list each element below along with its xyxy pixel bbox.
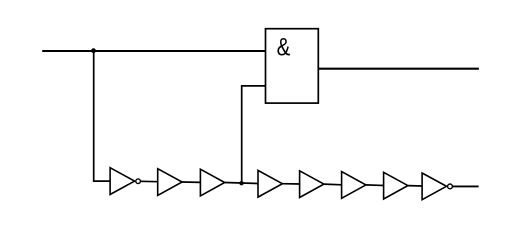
wire: horizontal segment into AND gate input b <box>241 85 266 87</box>
wire: buffer 3 output across tap junction to buffer 4 input <box>225 183 258 184</box>
wire: AND gate output net <box>318 68 479 70</box>
wire: buffer 4 output to buffer 5 input <box>282 183 299 185</box>
inverter 8 (triangle) <box>422 173 446 200</box>
wire: buffer 5 output to buffer 6 input <box>324 183 342 186</box>
wire: top input net from left edge to AND gate input a <box>42 50 265 52</box>
inverter 8 output bubble <box>448 184 453 189</box>
wire: buffer 2 output to buffer 3 input <box>182 181 200 183</box>
wire: inverter 8 output stub to the right <box>453 185 479 187</box>
node: junction on top input net <box>91 48 96 53</box>
wire: riser from tap junction up to AND gate input b level <box>241 86 243 183</box>
buffer 7 (triangle) <box>384 172 408 199</box>
inverter 1 (triangle) <box>110 168 135 195</box>
inverter 1 output bubble <box>136 179 141 184</box>
buffer 5 (triangle) <box>300 171 324 198</box>
buffer 2 (triangle) <box>158 169 182 196</box>
AND gate U1 function label & <box>277 32 291 60</box>
buffer 4 (triangle) <box>258 170 282 197</box>
buffer 3 (triangle) <box>200 169 224 196</box>
AND gate U1 body (IEC rectangle) <box>266 29 319 103</box>
wire: horizontal segment into inverter 1 input <box>93 180 110 182</box>
wire: buffer 6 output to buffer 7 input <box>366 184 384 187</box>
wire: buffer 7 output to inverter 8 input <box>408 185 422 187</box>
wire: vertical drop from top junction to delay-chain input <box>93 51 95 181</box>
wire: inverter 1 output to buffer 2 input <box>140 180 157 182</box>
svg-text:&: & <box>277 32 291 60</box>
buffer 6 (triangle) <box>342 172 366 199</box>
node: tap junction feeding AND gate input b <box>239 181 243 185</box>
